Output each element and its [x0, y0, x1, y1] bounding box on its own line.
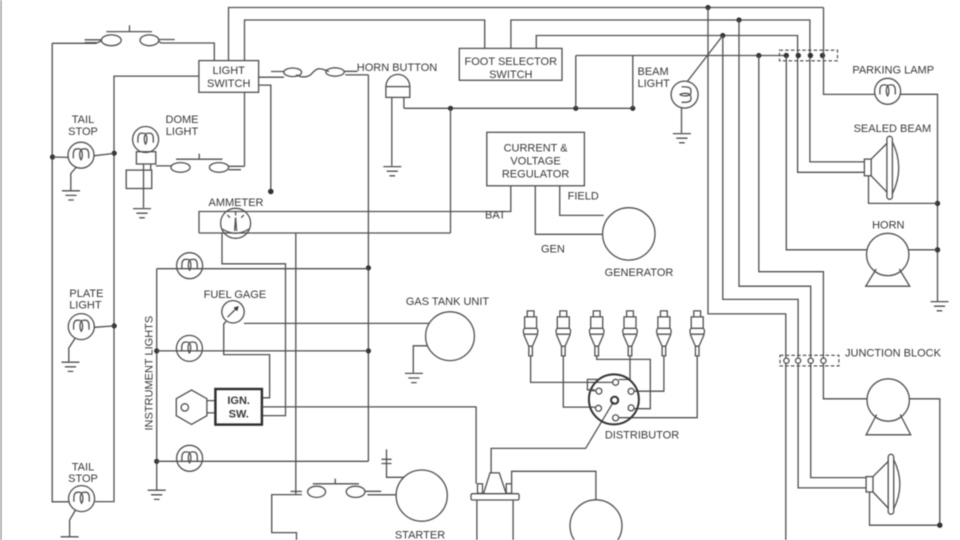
distributor terminal left-top — [596, 388, 602, 394]
horn button output lead — [403, 97, 405, 108]
fuel gage circle — [222, 301, 244, 323]
horn 1 circle — [867, 233, 909, 275]
sealed beam 1 cone — [871, 143, 887, 193]
junction block 1 terminal dots — [784, 53, 789, 58]
battery handle trapezoid — [484, 473, 507, 494]
svg-text:SEALED BEAM: SEALED BEAM — [854, 123, 932, 135]
staircase wire x739 to block2 T3 — [739, 20, 811, 358]
plate light lead to bus — [94, 326, 114, 327]
svg-text:AMMETER: AMMETER — [209, 197, 264, 209]
distributor terminal right-bottom — [628, 405, 634, 411]
tail stop lamp (lower) — [69, 486, 95, 512]
horn feed wire y108 — [404, 107, 633, 109]
ammeter scale ticks — [227, 212, 244, 218]
wire y55.5 to junction block 1 — [576, 55, 787, 57]
ammeter meter circle — [221, 208, 251, 238]
tail stop lamp leads — [53, 153, 115, 157]
spark plug 1 — [523, 311, 537, 356]
tail stop lamp (upper) — [68, 142, 94, 168]
foot selector switch box — [459, 48, 562, 80]
plug 1 wire — [531, 356, 613, 383]
svg-text:SW.: SW. — [229, 408, 249, 420]
risers to junction feed wire y55.5 — [576, 56, 633, 109]
dome light socket — [136, 152, 155, 164]
sealed beam 2 glass dome — [894, 459, 900, 509]
ground (horn button) — [383, 167, 401, 176]
circuit breaker right leads — [344, 71, 368, 75]
ground (beam light) — [673, 134, 691, 143]
plug 2 wire — [563, 356, 595, 407]
ground (tail stop lower, clipped) — [61, 536, 79, 538]
starter switch overline — [313, 479, 359, 484]
wire block2 T3 to sealed beam 2 upper — [811, 363, 866, 477]
battery cable stub with hash marks — [382, 449, 404, 477]
sealed beam 1 lens — [887, 136, 893, 199]
wire dome switch to light switch bottom — [244, 92, 246, 166]
wire regulator GEN terminal to generator — [535, 186, 603, 235]
wire regulator FIELD terminal to generator — [560, 186, 604, 216]
node: sealed beam return — [935, 201, 940, 206]
dome switch ellipse left — [171, 163, 190, 173]
ground (dome light) — [133, 209, 151, 218]
circuit breaker squiggle — [296, 69, 329, 77]
ground (instrument bus) — [148, 490, 166, 499]
dome switch S2 overline — [176, 154, 223, 159]
ammeter bus bottom wire to horn feed — [199, 232, 451, 234]
spark plug 3 — [590, 311, 604, 356]
wire from S1 left to left bus — [52, 41, 101, 43]
svg-text:TAIL: TAIL — [72, 114, 94, 126]
plug 6 wire — [619, 356, 698, 418]
starter switch bar contact — [291, 490, 302, 492]
gas tank ground wire — [413, 346, 428, 373]
starter switch wire to battery cable — [272, 495, 302, 540]
instrument lamp 1 — [177, 253, 203, 279]
node: horn return — [935, 247, 940, 252]
beam light ground lead — [681, 108, 683, 133]
node: instrument lamp 1 tap — [366, 265, 371, 270]
starter switch ellipse right — [346, 486, 365, 497]
key hole — [181, 404, 188, 411]
ignition key — [176, 390, 207, 424]
starter switch right leads — [365, 491, 396, 495]
headlight dimmer switch S1 (top-left) overline — [106, 25, 152, 31]
sealed beam 1 glass dome — [892, 142, 899, 195]
svg-text:HORN BUTTON: HORN BUTTON — [357, 62, 438, 74]
distributor terminal right-top — [628, 388, 634, 394]
tail stop lower ground wire — [70, 510, 76, 537]
switch S1 contact ellipse right — [140, 35, 159, 46]
second lamp bus wire — [95, 76, 199, 502]
sealed beam 2 return wire — [870, 492, 940, 525]
staircase wire x708 to block2 T1 — [708, 8, 786, 359]
horn button dome — [386, 74, 410, 86]
horn 2 mount trapezoid — [866, 415, 911, 435]
wire light switch to tail feed line (left segment) — [245, 20, 485, 61]
ammeter bottom arc — [222, 229, 249, 233]
horn button ground lead — [391, 97, 393, 165]
fuel gage wire to ignition switch — [224, 322, 270, 398]
ground (plate light) — [62, 362, 80, 371]
instrument lamp 3 wire — [157, 460, 369, 462]
ground (right column) — [931, 302, 949, 311]
svg-text:LIGHT: LIGHT — [212, 65, 245, 77]
node: beam 2 return junction — [937, 523, 942, 528]
wire light switch to headlamp feed line — [229, 8, 824, 61]
beam light lamp — [671, 81, 698, 108]
instrument feed vertical from breaker — [367, 75, 369, 461]
dome light bulb — [133, 127, 159, 153]
distributor terminal bottom — [613, 415, 619, 421]
fuel gage arrow — [228, 308, 238, 318]
junction block 2 dashed housing — [780, 355, 839, 366]
svg-text:SWITCH: SWITCH — [207, 78, 250, 90]
sealed beam 2 cone — [873, 461, 889, 509]
wire ignition switch to battery post — [262, 407, 476, 484]
svg-text:FOOT SELECTOR: FOOT SELECTOR — [465, 56, 558, 68]
fuel gage wire to gas tank unit — [244, 322, 429, 324]
wire horn 2 to right column 2 — [909, 399, 939, 525]
ground (tail stop upper) — [62, 191, 80, 200]
junction block 2 terminals (open) — [784, 358, 789, 363]
wire block1 T1 to horn 1 — [786, 56, 866, 250]
plug 3 wire — [597, 356, 651, 409]
spark plug 5 — [657, 311, 671, 356]
node: lamp3 tap — [154, 459, 159, 464]
wire ammeter to ignition switch — [222, 233, 286, 416]
parking lamp bulb — [875, 78, 901, 104]
svg-text:STOP: STOP — [68, 473, 98, 485]
distributor center rotor — [611, 397, 618, 404]
sealed beam 1 socket — [864, 159, 871, 176]
instrument lamp 2 — [176, 335, 202, 361]
wire block1 T4 down to parking lamp — [824, 8, 875, 95]
junction block 1 dashed housing — [780, 50, 838, 61]
node: tail stop tap — [50, 154, 55, 159]
svg-text:GENERATOR: GENERATOR — [605, 267, 674, 279]
node: ammeter branch — [448, 106, 453, 111]
light switch box — [199, 61, 259, 93]
node: tap at x739 — [736, 17, 741, 22]
sealed beam 2 lens — [888, 454, 894, 514]
svg-text:PARKING LAMP: PARKING LAMP — [852, 65, 934, 77]
diagonal wire to beam light — [687, 36, 723, 82]
wire from S1 right to light switch top — [159, 41, 214, 61]
wire y20 right segment to junction block — [511, 20, 865, 162]
circuit breaker ellipse left — [284, 68, 302, 77]
svg-text:FIELD: FIELD — [568, 191, 599, 203]
distributor body circle — [589, 374, 639, 424]
staircase wire x759 to block2 T4 — [759, 56, 824, 359]
horn 2 circle — [867, 379, 909, 421]
wire ammeter to starter switch — [295, 233, 297, 495]
spark plug 2 — [556, 311, 570, 356]
node: tap at x708 — [705, 5, 710, 10]
ammeter branch vertical — [450, 108, 452, 233]
distributor terminal top — [613, 379, 619, 385]
battery right post — [506, 484, 511, 494]
wire horn 1 to right column — [909, 249, 938, 251]
left tail lamp bus wire — [52, 43, 68, 502]
ignition coil circle (clipped) — [570, 500, 622, 540]
svg-text:TAIL: TAIL — [72, 461, 94, 473]
distributor points tab — [587, 379, 598, 391]
plug 5 wire — [634, 356, 664, 391]
wire distributor to coil tower — [491, 402, 613, 473]
svg-text:GAS TANK UNIT: GAS TANK UNIT — [406, 296, 490, 308]
wire battery right post to coil circle — [512, 471, 596, 500]
node: beam loop left — [573, 106, 578, 111]
staircase wire x723 to block2 T2 — [723, 36, 798, 359]
wire block2 T4 to horn 2 — [823, 363, 867, 399]
svg-text:STOP: STOP — [68, 126, 98, 138]
svg-text:FUEL GAGE: FUEL GAGE — [204, 289, 267, 301]
instrument lights bus — [156, 269, 158, 490]
wire parking lamp to right column — [901, 94, 938, 301]
horn 1 mount trapezoid — [866, 269, 910, 286]
svg-text:INSTRUMENT LIGHTS: INSTRUMENT LIGHTS — [144, 316, 156, 431]
svg-text:CURRENT &: CURRENT & — [504, 142, 569, 154]
node: instrument lamp 2 tap — [366, 348, 371, 353]
svg-text:PLATE: PLATE — [69, 288, 103, 300]
node: lamp2 tap — [154, 348, 159, 353]
ignition switch box IGN SW — [215, 389, 262, 425]
circuit breaker leads from light switch — [259, 72, 284, 78]
horn button base — [386, 87, 410, 98]
svg-text:LIGHT: LIGHT — [69, 299, 102, 311]
instrument lamp 3 — [177, 445, 203, 471]
gas tank unit circle — [426, 312, 475, 361]
voltage regulator box — [487, 132, 585, 186]
svg-text:JUNCTION BLOCK: JUNCTION BLOCK — [845, 347, 942, 359]
svg-text:REGULATOR: REGULATOR — [502, 169, 569, 181]
battery left post — [478, 484, 483, 494]
spark plug 6 — [690, 311, 704, 356]
page border line left edge — [0, 0, 2, 540]
plate light ground wire — [69, 339, 75, 362]
svg-text:BEAM: BEAM — [638, 66, 669, 78]
ammeter needle — [235, 218, 237, 232]
switch S1 leads — [85, 40, 175, 43]
wire block2 T2 to sealed beam 2 lower — [798, 363, 866, 488]
plug 4 wire — [619, 356, 630, 380]
svg-text:IGN.: IGN. — [227, 395, 250, 407]
svg-text:LIGHT: LIGHT — [166, 126, 199, 138]
svg-text:DOME: DOME — [166, 114, 199, 126]
starter circle — [396, 470, 447, 521]
sealed beam 1 return wire — [869, 176, 938, 204]
node: tail stop right tap — [112, 151, 117, 156]
svg-text:DISTRIBUTOR: DISTRIBUTOR — [605, 429, 679, 441]
svg-text:VOLTAGE: VOLTAGE — [510, 155, 560, 167]
ground (gas tank) — [405, 373, 423, 382]
generator circle — [603, 208, 655, 260]
battery body sides below — [477, 500, 513, 540]
svg-text:BAT: BAT — [485, 210, 506, 222]
starter switch ellipse left — [308, 486, 326, 497]
instrument lamp 2 wire — [157, 350, 369, 352]
wire block2 T1 down (clipped) — [785, 363, 787, 540]
wire y35 from foot switch to junction block — [536, 36, 864, 173]
distributor terminal left-bottom — [596, 405, 602, 411]
instrument lamp 1 wire — [157, 268, 369, 270]
node: tap at x723 — [720, 33, 725, 38]
dome switch leads — [156, 166, 245, 170]
node: beam loop right — [630, 106, 635, 111]
node: plate light tap — [112, 323, 117, 328]
battery base — [471, 494, 519, 500]
node: tap at x759 — [756, 53, 761, 58]
dome switch ellipse right — [209, 163, 228, 173]
svg-text:HORN: HORN — [872, 220, 904, 232]
node: end dot above ammeter — [268, 189, 274, 195]
switch S1 contact ellipse left — [101, 35, 121, 46]
tail stop lamp ground wire — [71, 167, 77, 191]
dome light stem to ground — [144, 164, 151, 208]
circuit breaker ellipse right — [326, 68, 344, 76]
svg-text:STARTER: STARTER — [395, 529, 445, 540]
key blade — [207, 401, 216, 413]
sealed beam 2 socket — [866, 477, 873, 492]
svg-text:SWITCH: SWITCH — [489, 69, 532, 81]
wire light switch right step down to ammeter area — [259, 85, 271, 191]
ammeter bus top wire to regulator BAT — [199, 186, 511, 233]
dome light housing — [126, 170, 152, 188]
svg-text:LIGHT: LIGHT — [638, 78, 671, 90]
svg-text:GEN: GEN — [541, 244, 565, 256]
spark plug 4 — [623, 311, 637, 356]
plate light lamp — [68, 314, 94, 340]
